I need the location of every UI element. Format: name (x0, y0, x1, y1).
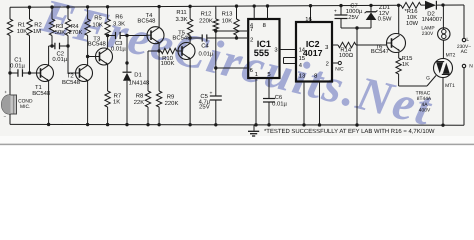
svg-text:4A: 4A (422, 102, 429, 108)
svg-text:R11: R11 (176, 9, 186, 16)
node C7 at rail (355, 123, 358, 126)
node lamp branch at rail (441, 3, 444, 6)
node C4/R13 junction (235, 36, 238, 39)
label R2 (33, 22, 42, 35)
label T3 (88, 35, 107, 47)
capacitor C7 (334, 6, 357, 28)
svg-text:+: + (4, 89, 7, 94)
svg-text:+: + (210, 90, 213, 96)
node C7 top (339, 4, 342, 7)
label G (426, 76, 430, 82)
node MT1 at rail (441, 123, 444, 126)
wire IC2 pin2 to NC (332, 62, 338, 64)
wire IC1 pin7 (216, 30, 247, 32)
wire T5 emitter (189, 59, 191, 125)
label IC2 4017 (303, 39, 323, 58)
wire R4 to T2 base (68, 46, 76, 73)
label C3 (111, 40, 126, 52)
svg-text:230V~: 230V~ (457, 44, 471, 50)
node R8 at rail (146, 123, 149, 126)
svg-text:220K: 220K (165, 100, 179, 107)
svg-text:*R16: *R16 (404, 8, 418, 15)
svg-text:1N4007: 1N4007 (422, 16, 443, 23)
wire T3 emitter (107, 64, 109, 91)
label R7 (113, 92, 121, 105)
label TRIAC (416, 91, 432, 114)
transistor T5 (178, 43, 195, 60)
label C4 (198, 43, 213, 58)
node IC1 pin4 at rail (253, 4, 256, 7)
label D1 (129, 72, 150, 87)
resistor R5 (85, 7, 90, 57)
node T6 collector at rail (397, 4, 400, 7)
label pin16 (305, 16, 311, 23)
node R6/C3/T3 junction (106, 34, 109, 37)
resistor R13 (234, 6, 239, 38)
resistor R12 (213, 6, 218, 31)
node IC1 pin8 at rail (266, 4, 269, 7)
svg-text:R2: R2 (34, 22, 42, 29)
wire T2 emitter (87, 81, 89, 125)
svg-text:R9: R9 (167, 94, 175, 101)
svg-text:3: 3 (325, 44, 328, 51)
note tested successfully (264, 128, 435, 135)
zener ZD1 (357, 5, 377, 28)
label R11 (175, 9, 187, 23)
label C2 (52, 50, 67, 63)
svg-text:14: 14 (299, 48, 306, 54)
svg-text:1K: 1K (113, 98, 120, 105)
svg-text:1N4148: 1N4148 (129, 80, 150, 87)
node C3/T4 base/D1 junction (125, 34, 128, 37)
node R4/C2 junction (66, 44, 69, 47)
label pin3 IC1 (274, 46, 277, 53)
svg-text:MT1: MT1 (445, 83, 455, 89)
svg-text:555: 555 (254, 48, 269, 58)
svg-text:R5: R5 (94, 15, 102, 22)
node R12/pin7 junction (214, 29, 217, 32)
svg-text:13: 13 (299, 72, 305, 79)
transistor T3 (96, 48, 113, 65)
svg-text:8T44A: 8T44A (417, 96, 432, 102)
wire T5 collector (189, 38, 191, 43)
svg-text:C6: C6 (275, 94, 283, 101)
svg-text:*TESTED SUCCESSFULLY AT EFY L: *TESTED SUCCESSFULLY AT EFY LAB WITH R16… (264, 128, 435, 135)
label COND MIC. (18, 99, 33, 110)
svg-text:15: 15 (299, 56, 305, 62)
node R2/T1 base junction (28, 71, 31, 74)
svg-text:3.3K: 3.3K (113, 20, 125, 27)
svg-text:C1: C1 (14, 56, 22, 63)
label R4 (69, 23, 83, 36)
svg-text:L: L (466, 37, 469, 43)
label pin3 IC2 (325, 44, 328, 51)
node pin8 at rail (318, 123, 321, 126)
svg-text:G: G (426, 76, 430, 82)
diode D1 1N4148 (123, 36, 132, 125)
svg-text:10K: 10K (17, 28, 28, 35)
resistor R11 (187, 6, 192, 38)
node IC2 pin16 at rail (309, 4, 312, 7)
resistor R7 (105, 91, 110, 125)
svg-text:R3: R3 (56, 23, 64, 30)
label R5 (92, 15, 103, 29)
label T6 (371, 44, 389, 55)
label R15 (402, 55, 414, 68)
terminal L (462, 38, 465, 41)
ic IC2 4017 box (296, 22, 332, 82)
svg-text:1: 1 (255, 72, 258, 78)
svg-text:0.5W: 0.5W (378, 16, 392, 23)
label pin2 (250, 36, 253, 43)
svg-text:R15: R15 (402, 55, 414, 62)
label MT1 (445, 83, 455, 89)
label MT2 (446, 52, 456, 58)
wire IC2 pin8 (319, 82, 321, 125)
node R11 top (188, 5, 191, 8)
wire T4 collector (158, 7, 160, 28)
wire N terminal to bottom rail (463, 68, 465, 125)
label D2 (422, 10, 443, 22)
svg-text:10K: 10K (92, 22, 103, 29)
wire T3 base (88, 56, 96, 58)
resistor R16 (401, 2, 421, 8)
svg-text:BC548: BC548 (88, 41, 107, 48)
label pin2 IC2 (326, 61, 329, 68)
svg-text:N/C: N/C (335, 66, 344, 72)
svg-text:8: 8 (263, 22, 266, 29)
label R10 (161, 55, 175, 67)
svg-text:10K: 10K (407, 14, 418, 21)
label R12 (199, 11, 213, 25)
label R16 (404, 8, 418, 27)
svg-text:BC548: BC548 (62, 79, 81, 86)
capacitor C6 (263, 99, 275, 125)
svg-text:R8: R8 (136, 92, 144, 99)
svg-text:R6: R6 (115, 13, 123, 20)
node R13 top (235, 4, 238, 7)
svg-text:10K: 10K (222, 17, 233, 24)
wire MT1 to rail (442, 78, 444, 126)
svg-text:16: 16 (305, 16, 311, 23)
label T2 (62, 72, 81, 85)
node C7/ZD1 bottom junction (355, 26, 358, 29)
svg-text:10W: 10W (406, 20, 419, 27)
wire T6 emitter (398, 52, 400, 58)
wire gate (399, 76, 436, 87)
svg-text:25V: 25V (348, 14, 359, 21)
lamp LAMP 230V (438, 28, 450, 40)
svg-text:25V: 25V (199, 103, 210, 110)
svg-text:MT2: MT2 (446, 52, 456, 58)
label L (466, 37, 469, 43)
wire T3 collector (107, 36, 109, 49)
node T5 emitter at rail (188, 123, 191, 126)
svg-text:+: + (334, 9, 337, 15)
resistor R1 (7, 7, 12, 73)
label LAMP (421, 26, 434, 37)
svg-text:220K: 220K (199, 17, 213, 24)
node pin1 at rail (254, 123, 257, 126)
svg-text:R1: R1 (18, 22, 26, 29)
transistor T2 (76, 65, 93, 82)
label R9 (165, 94, 179, 107)
label pin8 (263, 22, 266, 29)
transistor T6 BC547 (387, 34, 406, 53)
wire rail to lamp (442, 5, 444, 29)
wire IC2 pin13 (303, 82, 305, 125)
capacitor C2 (52, 43, 68, 50)
label N/C (335, 66, 344, 72)
label T1 (32, 84, 51, 97)
capacitor C5 (210, 68, 222, 125)
node R3 top (50, 5, 53, 8)
wire IC1 pin4 (253, 6, 255, 19)
label R1 (17, 22, 28, 35)
wire IC2 pin16 (310, 6, 312, 22)
resistor R2 (27, 7, 32, 73)
label pin8 IC2 (314, 72, 317, 79)
svg-text:400V: 400V (419, 107, 431, 113)
svg-text:100K: 100K (161, 60, 175, 67)
watermark eFreeCircuits.Net (35, 0, 438, 136)
label pin6 (250, 67, 253, 74)
label ZD1 (378, 4, 392, 22)
wire T4 emitter (158, 43, 160, 51)
node R6 top (106, 5, 109, 8)
wire R12 column down (215, 31, 217, 68)
node pin6 junction (214, 66, 217, 69)
svg-text:3.3K: 3.3K (175, 16, 187, 23)
wire bottom ground rail (10, 123, 464, 126)
wire IC2 pin15 to pin4 loop (284, 58, 297, 64)
resistor R10 (161, 48, 178, 53)
svg-text:D1: D1 (134, 72, 142, 79)
label R13 (222, 11, 234, 25)
wire T2 collector (87, 57, 89, 66)
resistor R15 (396, 58, 401, 86)
label C1 (10, 56, 25, 69)
op IC1 555 box (248, 19, 279, 78)
svg-text:R13: R13 (222, 11, 234, 18)
svg-text:BC547: BC547 (371, 48, 389, 55)
resistor R6 (105, 7, 110, 36)
label pin5 (267, 72, 270, 78)
svg-text:BC548: BC548 (172, 35, 191, 42)
svg-text:230V: 230V (422, 31, 434, 37)
node C5 at rail (214, 123, 217, 126)
resistor R8 (145, 51, 159, 125)
node R4 top (66, 5, 69, 8)
triac BT44A (434, 59, 453, 78)
wire right edge to L terminal (463, 5, 465, 38)
background plate (0, 0, 474, 148)
node R5/T3 base junction (86, 55, 89, 58)
svg-text:0.01µ: 0.01µ (52, 56, 67, 63)
node T4 collector at rail (157, 5, 160, 8)
node mic/C1/R1 junction (8, 71, 11, 74)
svg-text:0.01µ: 0.01µ (272, 100, 287, 107)
transistor T4 (147, 27, 164, 44)
label T5 (172, 30, 191, 42)
svg-text:22K: 22K (134, 99, 145, 106)
terminal N (462, 64, 465, 67)
svg-text:8: 8 (314, 72, 317, 79)
svg-text:R12: R12 (201, 11, 212, 18)
label R3 (55, 23, 66, 36)
resistor R9 (156, 51, 161, 125)
capacitor C3 (108, 32, 147, 39)
label pin14 (299, 48, 306, 54)
node T2 emitter at rail (86, 123, 89, 126)
svg-text:COND: COND (18, 99, 33, 105)
terminal N/C (338, 61, 341, 64)
node D1 at rail (125, 123, 128, 126)
svg-text:0.01µ: 0.01µ (111, 45, 126, 52)
wire IC1 pin6 (216, 67, 247, 69)
label pin13 (299, 72, 305, 79)
wire IC1 pin8 (267, 6, 269, 19)
svg-text:2: 2 (326, 61, 329, 68)
svg-text:270K: 270K (69, 29, 83, 36)
resistor R4 (65, 7, 70, 46)
svg-text:LAMP: LAMP (421, 26, 434, 32)
condenser microphone MIC (2, 73, 17, 124)
svg-text:BC548: BC548 (137, 18, 156, 25)
wire IC1 pin5 (268, 78, 270, 99)
svg-text:0.01µ: 0.01µ (10, 63, 25, 70)
svg-text:N: N (469, 64, 473, 70)
label pin4 (250, 23, 254, 29)
svg-text:2: 2 (250, 36, 253, 43)
svg-text:7: 7 (250, 27, 253, 33)
wire top supply rail (10, 5, 464, 7)
svg-text:MIC.: MIC. (20, 104, 30, 110)
svg-text:TRIAC: TRIAC (416, 91, 431, 97)
node R7 at rail (106, 123, 109, 126)
node T1 emitter at rail (47, 123, 50, 126)
node R11/T5/C4 junction (188, 36, 191, 39)
wire IC1 pin3 to IC2 pin14 (280, 49, 297, 51)
label pin7 (250, 27, 253, 33)
svg-text:1M: 1M (33, 28, 41, 35)
label pin4 IC2 (299, 63, 303, 69)
label 230V AC (457, 44, 471, 55)
label R14 (339, 46, 354, 58)
svg-text:50K: 50K (55, 29, 66, 36)
wire T6 collector (398, 5, 400, 34)
wire lamp to MT2 (442, 40, 444, 59)
svg-text:0.01µ: 0.01µ (198, 51, 213, 58)
label T4 (137, 12, 156, 25)
label N (469, 64, 473, 70)
label R8 (134, 92, 145, 106)
node R3/C2/T1 junction (50, 44, 53, 47)
capacitor C1 (10, 69, 37, 77)
node R5 top (86, 5, 89, 8)
label C5 (199, 93, 211, 110)
wire T1 collector (49, 46, 52, 65)
node R2 top (28, 5, 31, 8)
svg-text:C4: C4 (201, 43, 209, 50)
node ZD1 top (369, 4, 372, 7)
capacitor C4 (190, 34, 247, 41)
svg-text:AC: AC (461, 49, 468, 55)
svg-text:T2: T2 (67, 72, 74, 79)
node R9 at rail (157, 123, 160, 126)
label pin1 (255, 72, 258, 78)
node C6 at rail (267, 123, 270, 126)
node T4 emitter junction (157, 49, 160, 52)
svg-text:4017: 4017 (303, 48, 323, 58)
wire IC1 pin1 to ground (255, 78, 257, 125)
label C7 (346, 2, 363, 20)
svg-text:5: 5 (267, 72, 270, 78)
svg-text:3: 3 (274, 46, 277, 53)
resistor R14 (332, 42, 387, 47)
ground symbol (248, 125, 259, 136)
svg-text:R7: R7 (114, 92, 122, 99)
svg-text:1K: 1K (402, 61, 409, 68)
label C6 (272, 94, 287, 107)
svg-text:6: 6 (250, 67, 253, 74)
label pin15 (299, 56, 305, 62)
resistor R3 (49, 7, 54, 46)
node pin13 at rail (302, 123, 305, 126)
wire T1 emitter (48, 81, 50, 125)
svg-text:−: − (3, 114, 6, 119)
wire C7 column to rail (356, 28, 358, 125)
label R6 (113, 13, 125, 27)
label IC1 555 (254, 39, 271, 58)
svg-text:100Ω: 100Ω (339, 52, 354, 59)
diode D2 1N4007 (425, 1, 436, 10)
transistor T1 (37, 65, 54, 82)
